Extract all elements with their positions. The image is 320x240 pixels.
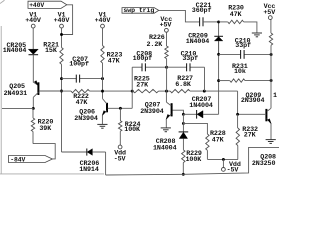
wire CR206 to bottom rail xyxy=(105,152,107,175)
transistor Q207 xyxy=(171,103,173,116)
wire swp trig to C221 xyxy=(159,10,200,22)
node R228 row xyxy=(182,122,185,125)
net flag +40V xyxy=(28,1,67,8)
node C207 left xyxy=(60,77,63,80)
svg-text:1N4004: 1N4004 xyxy=(3,47,27,55)
diode CR205 xyxy=(28,49,38,54)
wire Q206 emitter xyxy=(101,115,103,124)
diode CR208 xyxy=(179,131,189,133)
wire R230 to ground xyxy=(244,22,257,33)
resistor R221 xyxy=(60,48,63,65)
wire V1-1 down xyxy=(32,28,34,49)
svg-text:1N4004: 1N4004 xyxy=(186,38,210,46)
svg-text:1N4004: 1N4004 xyxy=(153,144,177,152)
node R231 left xyxy=(217,79,220,82)
node +40V junction xyxy=(60,33,63,36)
svg-text:-5V: -5V xyxy=(114,156,126,164)
node Vdd right xyxy=(222,158,225,161)
node CR209 top xyxy=(217,20,220,23)
resistor R233 (right edge) xyxy=(270,20,272,33)
node C207 right xyxy=(101,77,104,80)
page left border xyxy=(0,26,2,174)
node R232 top xyxy=(236,113,239,116)
diode CR207 xyxy=(183,113,196,115)
wire CR207 up rail xyxy=(218,22,220,114)
page corner mark xyxy=(0,0,5,3)
node C210b left xyxy=(217,53,220,56)
wire Vdd row xyxy=(207,158,238,160)
svg-text:47K: 47K xyxy=(230,11,243,19)
svg-text:27K: 27K xyxy=(244,131,257,139)
svg-text:15K: 15K xyxy=(45,47,58,55)
capacitor C210a xyxy=(167,66,187,68)
svg-text:10k: 10k xyxy=(234,68,246,76)
net flag swp trig xyxy=(122,8,159,14)
wire row A 3 xyxy=(159,90,171,92)
wire R220 to -84V flag xyxy=(33,144,55,159)
wire row A 4 xyxy=(190,90,238,92)
svg-text:1N914: 1N914 xyxy=(79,166,99,174)
svg-text:1: 1 xyxy=(273,92,277,100)
terminal Vdd -5V (right) xyxy=(222,168,226,172)
wire Vdd stub xyxy=(222,159,224,167)
svg-text:-84V: -84V xyxy=(10,156,25,163)
svg-text:2.2K: 2.2K xyxy=(147,41,164,49)
resistor R232 xyxy=(237,114,239,128)
transistor Q209 xyxy=(265,109,267,121)
svg-text:2N4931: 2N4931 xyxy=(4,90,28,98)
svg-text:33pf: 33pf xyxy=(235,42,251,50)
wire R221 down rail xyxy=(61,64,63,152)
ground Q206 xyxy=(97,123,107,125)
node R231 right xyxy=(270,79,273,82)
svg-text:swp trig: swp trig xyxy=(123,7,154,14)
resistor R229 xyxy=(182,150,185,163)
wire row A left xyxy=(39,90,71,92)
wire Q205 collector down xyxy=(32,97,34,108)
svg-text:100pf: 100pf xyxy=(69,61,89,69)
wire Q206 base row xyxy=(108,107,132,109)
wire V1-2 down xyxy=(61,28,63,48)
node base row left xyxy=(60,90,63,93)
svg-text:1N4004: 1N4004 xyxy=(189,102,213,110)
node R226 bottom xyxy=(165,66,168,69)
svg-text:2N3250: 2N3250 xyxy=(252,160,276,168)
node R224 top xyxy=(119,107,122,110)
wire Q205 base xyxy=(39,90,62,92)
node C210b right xyxy=(270,53,273,56)
wire row A to Q209 base rail xyxy=(237,91,239,114)
svg-text:100K: 100K xyxy=(124,126,141,134)
wire Q209 base xyxy=(238,113,267,115)
resistor R226 xyxy=(166,32,168,46)
wire C210a right drop xyxy=(204,67,206,91)
capacitor C221 xyxy=(199,17,201,26)
node Q205 collector xyxy=(32,107,35,110)
svg-text:+40V: +40V xyxy=(29,2,44,9)
wire flag +40V to node xyxy=(62,5,73,35)
node C208 drop xyxy=(131,90,134,93)
terminal Vdd -5V (left) xyxy=(118,145,122,149)
wire Q207 base xyxy=(173,110,184,114)
resistor R225 xyxy=(133,89,159,92)
resistor R220 xyxy=(32,108,34,118)
svg-text:47K: 47K xyxy=(212,136,225,144)
svg-text:47K: 47K xyxy=(108,58,121,66)
node CR207 row xyxy=(182,113,185,116)
capacitor C208 xyxy=(132,66,142,68)
wire C208 left drop xyxy=(131,67,133,91)
node C210 drop xyxy=(203,90,206,93)
resistor R227 xyxy=(170,89,190,92)
svg-text:100pf: 100pf xyxy=(133,55,153,63)
wire Q209 emitter xyxy=(270,123,272,139)
wire CR205 to Q205 xyxy=(32,55,34,82)
wire node to left edge xyxy=(2,107,33,109)
wire base chain xyxy=(182,114,184,131)
wire row A 2 xyxy=(90,90,134,92)
wire Q207 emitter xyxy=(165,119,167,128)
node Q207 collector xyxy=(165,90,168,93)
page bottom border xyxy=(0,173,104,175)
svg-text:2N3904: 2N3904 xyxy=(241,97,265,105)
resistor R230 xyxy=(219,21,228,23)
wire C208 drop to base row xyxy=(131,91,133,108)
capacitor C207 xyxy=(62,78,77,80)
node R229 bottom xyxy=(182,173,185,176)
wire R228 row xyxy=(183,123,207,134)
ground Q207 xyxy=(161,127,171,129)
capacitor C210b xyxy=(219,53,241,55)
wire bottom rail xyxy=(106,147,279,175)
svg-text:360pf: 360pf xyxy=(192,7,212,15)
resistor R231 xyxy=(219,80,230,82)
wire V1-3 down xyxy=(102,28,104,46)
svg-text:2N3904: 2N3904 xyxy=(74,115,98,123)
diode CR206 xyxy=(62,151,87,153)
svg-text:33pf: 33pf xyxy=(182,55,198,63)
diode CR209 xyxy=(214,35,223,37)
net flag -84V xyxy=(9,156,53,163)
svg-text:47K: 47K xyxy=(76,99,89,107)
node Q206 collector xyxy=(101,90,104,93)
svg-text:27K: 27K xyxy=(136,81,149,89)
resistor R222 xyxy=(71,89,90,92)
resistor R223 xyxy=(101,46,104,64)
resistor R228 xyxy=(206,134,209,150)
ground Q209 xyxy=(266,139,276,141)
transistor Q205 xyxy=(37,82,39,95)
transistor Q206 xyxy=(106,103,108,113)
svg-text:39K: 39K xyxy=(39,125,52,133)
resistor R224 xyxy=(119,108,121,120)
ground earth R230 xyxy=(252,32,262,34)
svg-text:2N3904: 2N3904 xyxy=(140,108,164,116)
svg-text:100K: 100K xyxy=(186,156,203,164)
svg-text:6.8K: 6.8K xyxy=(175,81,192,89)
